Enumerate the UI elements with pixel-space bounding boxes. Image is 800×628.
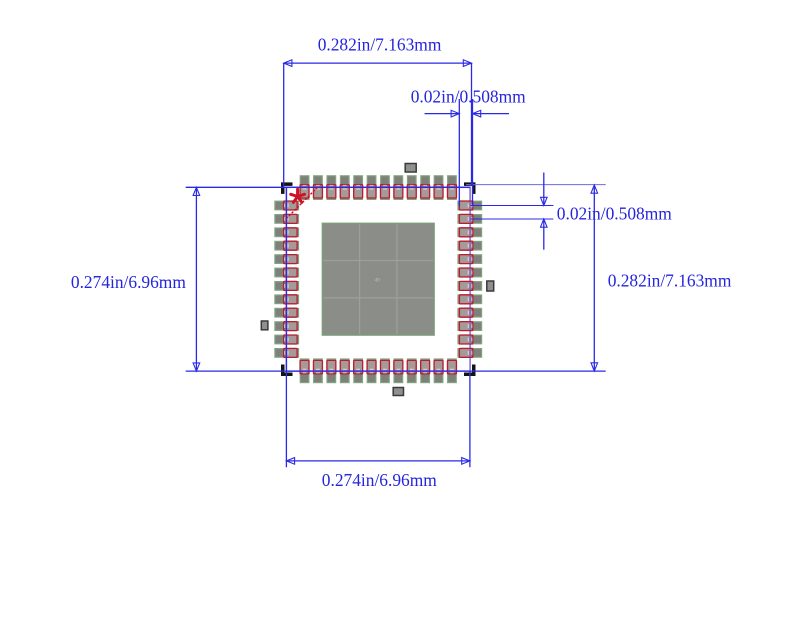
svg-text:0.274in/6.96mm: 0.274in/6.96mm — [322, 470, 437, 490]
svg-text:0.282in/7.163mm: 0.282in/7.163mm — [318, 34, 442, 54]
svg-text:49: 49 — [375, 279, 381, 284]
svg-text:0.02in/0.508mm: 0.02in/0.508mm — [411, 87, 526, 107]
svg-text:0.282in/7.163mm: 0.282in/7.163mm — [608, 271, 732, 291]
svg-text:0.274in/6.96mm: 0.274in/6.96mm — [71, 272, 186, 292]
svg-text:0.02in/0.508mm: 0.02in/0.508mm — [557, 204, 672, 224]
